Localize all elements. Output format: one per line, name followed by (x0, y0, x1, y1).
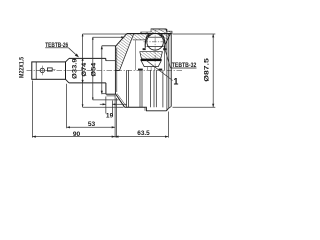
extension line 53 left (66, 84, 68, 129)
svg-text:Ø87.5: Ø87.5 (203, 57, 210, 81)
hole centerline cross (38, 69, 48, 71)
inner wall line (133, 39, 146, 41)
svg-text:M22X1.5: M22X1.5 (20, 56, 26, 78)
svg-text:63.5: 63.5 (137, 130, 150, 137)
d87.5 dim line (212, 34, 214, 107)
disk bottom edge (106, 93, 116, 95)
dim 53 line (67, 126, 116, 128)
centerline main axis (27, 69, 183, 71)
small cylinder top edge (106, 60, 116, 62)
cage right sliver (163, 36, 165, 48)
bracket C bottom horizontal (102, 93, 106, 95)
cage bottom rail left (143, 48, 146, 50)
extension line left 90 (31, 81, 33, 138)
tone ring bump top inner line (152, 29, 166, 31)
ABS ring bottom bump (145, 107, 168, 111)
inner back surface edge (120, 34, 134, 71)
neck cylinder bottom edge (69, 82, 106, 84)
extension line common 115 (114, 95, 116, 138)
svg-text:Ø33.9: Ø33.9 (71, 58, 78, 79)
thread relief line (35, 62, 37, 79)
bell bottom outer edge (125, 106, 145, 108)
cross hole circle (40, 68, 44, 72)
boot groove verticals bottom half (126, 70, 128, 107)
bell outer wall hatched strip (top) (127, 34, 171, 47)
ABS tone ring (sectioned, top) (141, 29, 172, 34)
cage dark corner right (159, 34, 163, 37)
svg-text:53: 53 (88, 121, 96, 128)
inner race hatched section (top) (140, 52, 163, 59)
ball vertical centerline (154, 30, 156, 71)
chamfer stem to neck top (66, 58, 70, 62)
ball (147, 34, 164, 51)
bore spline dark mark left (138, 69, 143, 71)
cage bottom rail right (163, 48, 166, 50)
cone outer edge (115, 34, 126, 47)
d87.5 extension bottom (173, 106, 216, 108)
face chamfer bottom (168, 107, 171, 109)
leader TEBTB-32 (164, 48, 170, 69)
dim bracket d54 vertical (101, 46, 103, 94)
disk bottom second line (107, 95, 116, 97)
extension line 19 left (105, 97, 107, 114)
keyway slot (47, 68, 52, 71)
cage rail chord upper (148, 36, 163, 38)
extension line 116.3 (115, 98, 117, 138)
mouth inner chamfer (164, 34, 170, 47)
svg-text:Ø54: Ø54 (91, 62, 98, 76)
bell right face (170, 34, 172, 107)
cage left sliver (145, 36, 147, 48)
svg-text:1: 1 (173, 77, 178, 87)
dim bracket d33.9 top horizontal (83, 33, 127, 35)
bell back chamfer line (116, 48, 118, 92)
bell back cone and wall hatched section (top) (115, 34, 133, 71)
d87.5 extension top (173, 33, 216, 35)
dim bracket d33.9 vertical (82, 34, 84, 107)
chamfer stem to neck bottom (66, 79, 70, 83)
svg-text:90: 90 (73, 131, 81, 138)
disk face bottom external (105, 83, 107, 94)
bell back face (114, 46, 116, 94)
disk top edge (102, 45, 116, 47)
dim 90 line (32, 136, 115, 138)
arrow at neck bottom (82, 80, 84, 83)
dim bracket d74 vertical (92, 37, 94, 100)
ball horizontal centerline (144, 41, 167, 43)
svg-text:Ø74: Ø74 (81, 62, 88, 76)
leader TEBTB-26 (69, 48, 78, 57)
snap ring groove black band (141, 59, 162, 61)
dim 19 line (100, 103, 106, 105)
inner race bore outline (141, 61, 161, 67)
cage rail chord lower (147, 46, 164, 48)
dim bracket d74 bottom horizontal (93, 99, 119, 101)
neck step down top (105, 58, 107, 60)
bell outer wall top edge redraw (127, 33, 171, 35)
extension line right 63.5 (167, 112, 169, 138)
dim bracket d33.9 bottom horizontal (83, 106, 124, 108)
bell cone bottom chamfer (117, 94, 126, 106)
inner race hub edge line (134, 40, 136, 70)
stem threaded shaft body (32, 62, 66, 79)
bell outer wall top edge (127, 33, 171, 35)
svg-text:19: 19 (106, 113, 114, 120)
section cut edge at axis (115, 70, 119, 72)
cage dark corner left (147, 34, 151, 37)
neck cylinder top edge (69, 57, 106, 59)
dim bracket d74 top horizontal (93, 36, 125, 38)
arrow at neck top (82, 58, 84, 61)
bore spline dark mark right (159, 69, 163, 71)
dim 63.5 line (115, 136, 168, 138)
mouth inner wall vertical (163, 47, 165, 71)
extension line 19 right (111, 101, 113, 114)
item 1 leader (146, 60, 172, 80)
bracket corner arrows (82, 34, 84, 37)
bore spline lines (147, 67, 149, 70)
bell cone bottom external (115, 94, 124, 108)
mouth rim lines (166, 29, 168, 111)
